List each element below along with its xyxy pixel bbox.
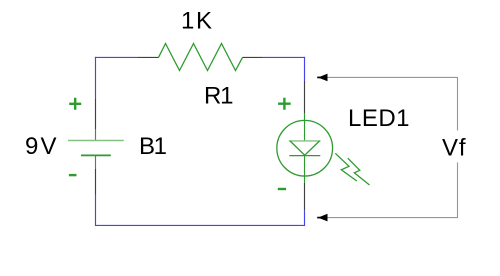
wire right vertical (dark) bbox=[304, 81, 306, 113]
wire left vertical lower (dark) bbox=[95, 169, 97, 195]
wire top-left to resistor (dark) bbox=[138, 56, 159, 58]
battery plus sign bbox=[69, 98, 81, 110]
wire right vertical upper (blue) bbox=[304, 57, 306, 81]
wire top-left horizontal (blue) bbox=[95, 56, 138, 58]
battery B1 negative pin (green) bbox=[95, 155, 97, 169]
Vf top arrowhead bbox=[317, 74, 327, 82]
LED1 cathode bar bbox=[289, 155, 320, 157]
svg-text:9V: 9V bbox=[25, 133, 57, 160]
svg-text:B1: B1 bbox=[139, 133, 167, 160]
value label 1K bbox=[181, 8, 212, 35]
LED1 light flash stroke 1 bbox=[335, 153, 357, 181]
reference label B1 bbox=[139, 133, 167, 160]
wire right vertical bottom (blue) bbox=[304, 210, 306, 226]
svg-text:R1: R1 bbox=[204, 82, 234, 109]
LED1 triangle sides bbox=[290, 141, 320, 155]
wire left vertical upper (blue) bbox=[95, 57, 97, 99]
wire resistor to right (dark) bbox=[243, 56, 263, 58]
svg-text:LED1: LED1 bbox=[348, 105, 410, 132]
LED minus sign bbox=[278, 188, 286, 190]
wire left vertical (dark) bbox=[95, 98, 97, 129]
resistor R1 body bbox=[159, 44, 243, 71]
svg-text:1K: 1K bbox=[181, 8, 212, 35]
LED1 circle bbox=[277, 120, 333, 176]
wire left vertical bottom (blue) bbox=[95, 195, 97, 227]
battery B1 positive plate bbox=[68, 140, 124, 142]
reference label R1 bbox=[204, 82, 234, 109]
net label Vf bbox=[442, 134, 466, 161]
LED1 triangle top edge bbox=[289, 140, 321, 142]
reference label LED1 bbox=[348, 105, 410, 132]
LED1 anode pin (green) bbox=[304, 113, 306, 140]
LED plus sign bbox=[278, 98, 291, 110]
battery minus sign bbox=[69, 174, 77, 176]
LED1 light flash stroke 2 bbox=[348, 158, 370, 185]
wire top-right horizontal (blue) bbox=[262, 56, 305, 58]
Vf label background bbox=[440, 131, 468, 163]
wire right vertical lower (dark) bbox=[304, 183, 306, 210]
battery B1 positive pin (green) bbox=[95, 129, 97, 140]
value label 9V bbox=[25, 133, 57, 160]
Vf bottom arrowhead bbox=[317, 214, 327, 222]
wire bottom horizontal (blue) bbox=[96, 224, 305, 226]
LED1 cathode pin (green) bbox=[304, 156, 306, 183]
svg-text:Vf: Vf bbox=[442, 134, 466, 161]
Vf bracket line bbox=[322, 77, 458, 217]
battery B1 negative plate bbox=[81, 154, 111, 156]
